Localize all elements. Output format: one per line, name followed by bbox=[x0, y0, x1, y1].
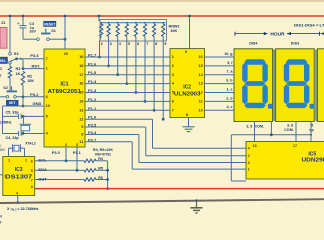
svg-text:12MHz: 12MHz bbox=[0, 120, 12, 124]
wire cap ground bus left bbox=[2, 106, 4, 134]
svg-text:P3.1: P3.1 bbox=[73, 150, 82, 155]
svg-text:4: 4 bbox=[119, 42, 121, 46]
svg-text:10: 10 bbox=[198, 107, 202, 112]
svg-text:C: C bbox=[0, 67, 3, 71]
wire P3.1 to SDA bbox=[76, 147, 78, 170]
svg-text:S2: S2 bbox=[3, 86, 8, 90]
svg-text:1: 1 bbox=[8, 159, 10, 163]
wire P3.0 to SCL bbox=[65, 147, 67, 161]
capacitor C4 33p bbox=[3, 133, 19, 135]
wire GND row bbox=[22, 97, 24, 106]
resistor element RNW1 bbox=[126, 22, 128, 24]
wire S3 to rail bbox=[9, 16, 11, 53]
svg-text:6: 6 bbox=[137, 42, 139, 46]
svg-text:3, 8: 3, 8 bbox=[287, 124, 293, 128]
svg-text:RESET: RESET bbox=[44, 23, 55, 27]
svg-text:R5: R5 bbox=[98, 167, 103, 171]
svg-text:ULN2003: ULN2003 bbox=[174, 91, 201, 97]
digit segments bbox=[286, 59, 308, 64]
microcontroller IC1 AT89C2051 bbox=[44, 49, 85, 147]
label SET button bbox=[6, 100, 18, 105]
svg-text:10, g: 10, g bbox=[224, 52, 232, 56]
svg-text:R6=470Ω: R6=470Ω bbox=[95, 152, 111, 156]
resistor network RNW1 10K bbox=[100, 20, 167, 42]
wire P3.5 to IC5 pin2 bbox=[85, 126, 146, 128]
svg-text:DIS1-DIS4 = LT: DIS1-DIS4 = LT bbox=[294, 23, 324, 27]
dimension arrows HOUR bbox=[234, 32, 236, 36]
svg-text:C4, 33p: C4, 33p bbox=[6, 136, 20, 140]
svg-text:2, d: 2, d bbox=[226, 96, 232, 100]
svg-text:u: u bbox=[0, 144, 2, 148]
svg-text:3, 8: 3, 8 bbox=[246, 124, 252, 128]
svg-text:4, c: 4, c bbox=[227, 105, 233, 109]
svg-text:3: 3 bbox=[110, 42, 112, 46]
svg-text:Z1: Z1 bbox=[1, 21, 5, 25]
wire P1.0 row bbox=[85, 118, 153, 120]
svg-text:COM.: COM. bbox=[284, 128, 293, 132]
svg-text:5: 5 bbox=[31, 169, 33, 173]
resistor R2 10K bbox=[21, 71, 24, 85]
svg-text:7: 7 bbox=[146, 42, 148, 46]
svg-text:RST.: RST. bbox=[32, 63, 41, 68]
svg-text:DS1307: DS1307 bbox=[5, 174, 32, 180]
svg-text:OUT: OUT bbox=[38, 176, 47, 181]
gap shading between displays bbox=[273, 50, 275, 122]
svg-text:R2: R2 bbox=[27, 75, 32, 79]
svg-text:S3: S3 bbox=[14, 52, 19, 56]
svg-text:7: 7 bbox=[46, 56, 48, 61]
svg-text:P3.0: P3.0 bbox=[52, 150, 60, 155]
ground below IC2 pin8 bbox=[188, 118, 190, 127]
svg-text:DIS3: DIS3 bbox=[291, 41, 299, 45]
wire IC3 pin3 VBAT bbox=[0, 174, 3, 176]
wire dp bus bbox=[231, 134, 311, 136]
driver IC5 UDN2981 bbox=[246, 142, 324, 180]
resistor element RNW1 bbox=[108, 22, 110, 24]
svg-text:17: 17 bbox=[293, 144, 297, 148]
svg-text:9, f: 9, f bbox=[227, 61, 233, 65]
svg-text:10: 10 bbox=[46, 103, 50, 108]
7-segment display DIS3 bbox=[276, 49, 315, 122]
svg-text:8: 8 bbox=[155, 42, 157, 46]
wire DIS4 dp bbox=[270, 122, 272, 135]
svg-text:7, a: 7, a bbox=[227, 70, 234, 74]
svg-text:SET: SET bbox=[9, 101, 17, 105]
decimal point bbox=[268, 104, 273, 109]
svg-text:SDA: SDA bbox=[38, 167, 47, 172]
resistor element RNW1 bbox=[162, 22, 164, 24]
wire VCC top rail bbox=[0, 15, 324, 17]
svg-text:8: 8 bbox=[31, 185, 33, 189]
wire P1.0 to IC5 pin4 bbox=[152, 119, 154, 148]
svg-text:C5, 33p: C5, 33p bbox=[6, 110, 20, 114]
svg-text:17: 17 bbox=[79, 72, 83, 77]
wire P3.4 to IC5 pin3 bbox=[85, 134, 139, 136]
wire SDA row bbox=[35, 169, 84, 171]
crystal XTAL1 12MHz bbox=[22, 116, 24, 124]
wire pullups to VCC bbox=[107, 161, 109, 189]
svg-text:7: 7 bbox=[0, 74, 2, 78]
resistor R6 bbox=[84, 178, 96, 181]
svg-text:XTAL2: XTAL2 bbox=[25, 141, 36, 145]
wire DIS3 COM to IC5 pin17 bbox=[295, 122, 297, 142]
svg-text:7: 7 bbox=[31, 178, 33, 182]
7-segment display DIS2 (cut off) bbox=[317, 49, 324, 122]
switch S3 bbox=[9, 53, 12, 56]
wires IC2 outputs to display segments bbox=[205, 56, 235, 58]
svg-text:16V: 16V bbox=[0, 148, 6, 152]
driver IC2 ULN2003 bbox=[170, 49, 205, 118]
wire VCC to IC1 pin20 bbox=[64, 16, 66, 49]
svg-text:P3.2: P3.2 bbox=[30, 92, 39, 97]
svg-text:DIS4: DIS4 bbox=[249, 41, 258, 45]
capacitor C5 33p bbox=[3, 115, 19, 117]
wire SCL row bbox=[35, 160, 84, 162]
wire DIS4 COM to IC5 pin15 bbox=[254, 122, 256, 142]
svg-text:2: 2 bbox=[101, 42, 103, 46]
ground symbol bottom bbox=[196, 200, 198, 207]
RTC IC3 DS1307 bbox=[3, 157, 35, 196]
svg-text:SEL: SEL bbox=[0, 59, 6, 63]
svg-text:10K: 10K bbox=[27, 79, 34, 83]
wires RNW1 to P1 rows bbox=[99, 41, 101, 57]
wire dp bus down bbox=[230, 135, 232, 181]
svg-text:SCL: SCL bbox=[38, 158, 47, 163]
svg-text:1K: 1K bbox=[16, 72, 21, 76]
resistor R4 bbox=[84, 159, 96, 162]
svg-text:3: 3 bbox=[248, 161, 250, 165]
label RESET bbox=[44, 21, 56, 26]
svg-text:UDN2981: UDN2981 bbox=[302, 158, 324, 164]
switch S1 reset button bbox=[45, 29, 47, 33]
wire IC2 pin9 to VCC rail bbox=[189, 16, 191, 49]
svg-text:5: 5 bbox=[311, 124, 313, 128]
svg-text:HOUR: HOUR bbox=[270, 31, 285, 36]
svg-text:3: 3 bbox=[4, 175, 6, 179]
svg-text:R3: R3 bbox=[16, 67, 21, 71]
wire P3.3 row bbox=[17, 58, 44, 60]
svg-text:20: 20 bbox=[64, 51, 68, 56]
resistor element RNW1 bbox=[100, 22, 102, 24]
svg-text:1: 1 bbox=[248, 168, 250, 172]
svg-text:1, e: 1, e bbox=[227, 87, 233, 91]
svg-text:P3.3: P3.3 bbox=[30, 53, 39, 58]
wire VCC bottom rail from IC3 pin8 bbox=[35, 188, 324, 190]
resistor R3 1K bbox=[9, 64, 11, 67]
svg-text:TAL2: TAL2 bbox=[10, 209, 17, 212]
svg-text:6, b: 6, b bbox=[226, 79, 233, 83]
wire OUT row bbox=[35, 179, 84, 181]
wire P3.7 to IC5 pin1 bbox=[85, 141, 132, 143]
svg-text:RNW1: RNW1 bbox=[169, 24, 180, 28]
wire P1 rows to IC2 bbox=[85, 56, 170, 58]
svg-text:2: 2 bbox=[25, 159, 27, 163]
svg-text:R6: R6 bbox=[98, 176, 103, 180]
resistor element RNW1 bbox=[144, 22, 146, 24]
svg-text:GND: GND bbox=[33, 101, 42, 106]
svg-text:= 32.768kHz: = 32.768kHz bbox=[17, 207, 38, 211]
svg-text:S1: S1 bbox=[51, 29, 56, 33]
svg-text:16V: 16V bbox=[29, 30, 36, 34]
label SEL button bbox=[0, 57, 8, 63]
ground bus bbox=[0, 199, 324, 203]
svg-text:IC5: IC5 bbox=[308, 152, 316, 158]
svg-text:5: 5 bbox=[128, 42, 130, 46]
digit segments bbox=[244, 59, 266, 64]
decimal point bbox=[310, 104, 315, 109]
svg-text:6: 6 bbox=[31, 159, 33, 163]
svg-text:15: 15 bbox=[253, 144, 257, 148]
wire RST row bbox=[22, 59, 24, 69]
top page border shade bbox=[0, 0, 324, 2]
svg-text:IC3: IC3 bbox=[15, 167, 23, 173]
svg-text:COM.: COM. bbox=[255, 124, 264, 128]
7-segment display DIS4 bbox=[234, 49, 273, 122]
wire P3.2 row bbox=[0, 96, 6, 98]
resistor element RNW1 bbox=[153, 22, 155, 24]
wire DIS3 dp bbox=[310, 122, 312, 142]
resistor element RNW1 bbox=[135, 22, 137, 24]
wire IC3 pin4 to ground bus bbox=[17, 196, 19, 203]
resistor R5 bbox=[84, 169, 96, 172]
svg-text:7: 7 bbox=[172, 107, 174, 112]
resistor element RNW1 bbox=[117, 22, 119, 24]
svg-text:IC1: IC1 bbox=[60, 81, 68, 87]
svg-text:10K: 10K bbox=[170, 29, 177, 33]
svg-text:2: 2 bbox=[248, 154, 250, 158]
svg-text:9: 9 bbox=[164, 42, 166, 46]
svg-text:IC2: IC2 bbox=[183, 85, 191, 91]
crystal XTAL2 32.768kHz bbox=[12, 144, 14, 152]
svg-text:AT89C2051: AT89C2051 bbox=[48, 89, 82, 95]
capacitor C3 1u 16V bbox=[22, 16, 24, 25]
